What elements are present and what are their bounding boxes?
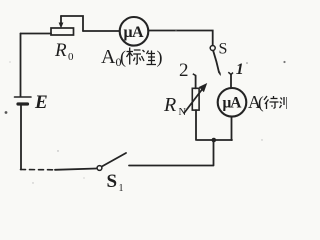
hanzi dai (264, 96, 279, 109)
hanzi biao (127, 48, 142, 65)
hanzi zhun (142, 50, 157, 65)
switch S1 (97, 153, 213, 170)
svg-text:μA: μA (124, 24, 144, 41)
svg-text:2: 2 (179, 60, 189, 81)
svg-text:R: R (163, 94, 176, 116)
svg-text:1: 1 (119, 183, 124, 194)
wire bottom to switch S1 (55, 169, 97, 170)
hanzi ce (cut off at edge) (280, 97, 288, 109)
wire junction bar (197, 139, 232, 141)
svg-text:S: S (107, 171, 118, 192)
scan speckles (5, 30, 286, 183)
svg-text:(: ( (258, 93, 264, 112)
svg-text:1: 1 (236, 61, 244, 78)
svg-text:): ) (157, 47, 163, 68)
ammeter A (under test) (218, 88, 247, 117)
wire meter A bottom lead (231, 117, 233, 141)
arrowhead of rheostat R0 wiper (59, 23, 64, 29)
contact tick at node 1 (228, 72, 233, 74)
svg-text:A0: A0 (101, 46, 121, 69)
svg-text:0: 0 (68, 51, 74, 63)
wire left rail vertical (20, 34, 22, 97)
svg-text:R: R (54, 40, 67, 61)
contact 2 lead to RN (195, 76, 197, 89)
svg-text:(: ( (120, 47, 126, 68)
wire bottom right vertical to junction (213, 140, 215, 166)
svg-text:μA: μA (223, 95, 243, 112)
svg-text:E: E (34, 92, 48, 113)
arrowhead of RN arrow (199, 83, 207, 92)
contact 1 lead to ammeter A (230, 75, 232, 89)
wire RN bottom lead (195, 110, 197, 140)
ammeter A0 (standard) (120, 17, 149, 46)
resistor RN (adjustable) (185, 88, 204, 113)
wire bottom left dashed segment (21, 169, 56, 171)
svg-text:S: S (219, 41, 228, 58)
rheostat R0 (51, 16, 83, 35)
svg-text:N: N (179, 107, 187, 118)
wire meter A0 to switch S (148, 31, 212, 46)
switch S (210, 46, 219, 73)
blade tip blob of switch S (218, 70, 221, 76)
junction node dot (212, 138, 217, 143)
contact tick at node 2 (193, 74, 196, 76)
battery E (15, 97, 32, 170)
wire left rail top corner to rheostat (21, 33, 52, 35)
wire rheostat wiper output to meter A0 (83, 30, 120, 32)
